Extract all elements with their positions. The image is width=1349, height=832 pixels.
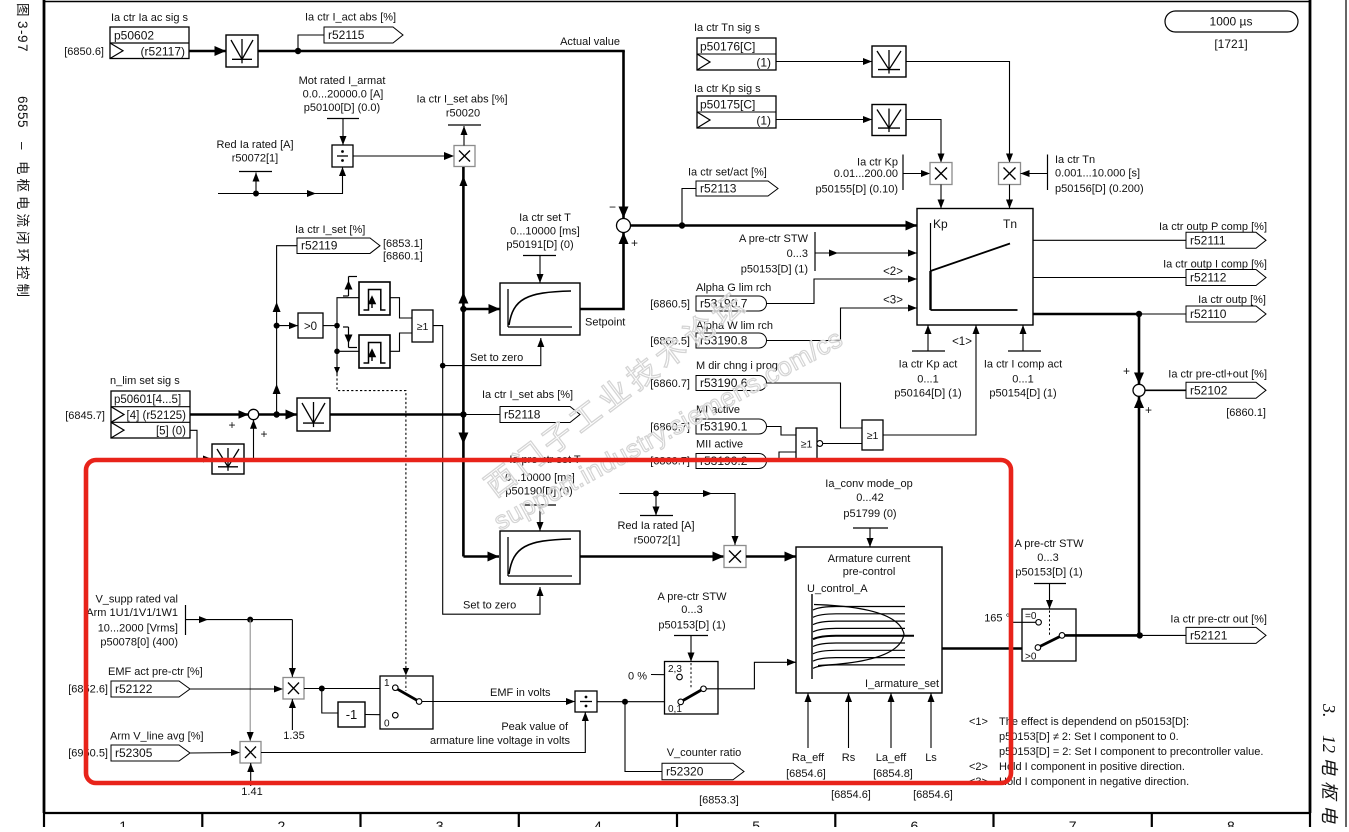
binector r53190.6: [696, 376, 767, 391]
svg-text:0...1: 0...1: [917, 374, 938, 386]
svg-text:p50602: p50602: [114, 29, 154, 43]
svg-text:0 %: 0 %: [628, 671, 647, 683]
svg-text:+: +: [260, 427, 267, 441]
cycle time oval 1000us: [1165, 11, 1298, 32]
label Setpoint: [585, 317, 625, 329]
svg-text:7: 7: [1069, 818, 1077, 827]
PT1 block setpoint smoothing: [500, 283, 580, 335]
svg-text:[6854.8]: [6854.8]: [873, 768, 913, 780]
svg-text:r50072[1]: r50072[1]: [232, 153, 278, 165]
note <1> line3: [999, 746, 1263, 758]
junction set-to-zero split: [440, 363, 446, 369]
smoothing block Ia actual: [226, 35, 258, 67]
output chevron r52110: [1186, 306, 1266, 322]
label Set to zero 2: [463, 600, 516, 612]
svg-text:0...3: 0...3: [1037, 552, 1058, 564]
input chevron r52305: [111, 745, 190, 761]
svg-text:[6845.7]: [6845.7]: [65, 410, 105, 422]
junction >0 branch: [274, 323, 280, 329]
svg-text:[6853.1]: [6853.1]: [383, 238, 423, 250]
label <1>: [952, 336, 972, 348]
wire nlim sum to limiter: [259, 410, 297, 420]
wire vertical I_set to PT1 input: [460, 304, 500, 314]
bar V_supp: [185, 605, 187, 635]
label n_lim set sig s: [110, 375, 180, 387]
wire r52118 tap: [463, 414, 500, 416]
right margin vertical caption: [1319, 703, 1339, 832]
divider block EMF ratio: [575, 691, 597, 712]
svg-text:[6854.6]: [6854.6]: [831, 789, 871, 801]
wire r53190.8 to PI: [767, 305, 918, 341]
input arrow Ls: [928, 693, 935, 748]
binector r53190.2: [696, 454, 767, 469]
svg-text:armature line voltage in volts: armature line voltage in volts: [430, 735, 571, 747]
label Mot rated I_armat: [299, 75, 386, 114]
junction V_supp: [247, 617, 253, 623]
svg-text:0...1: 0...1: [1012, 374, 1033, 386]
svg-text:≥1: ≥1: [417, 321, 429, 333]
footer column numbers 1-8: [119, 818, 1235, 832]
svg-text:r52102: r52102: [1190, 383, 1228, 397]
output chevron r52113: [696, 181, 778, 196]
label Actual value: [560, 36, 620, 48]
note <3>: [969, 776, 1189, 788]
junction trigger branch lower: [334, 349, 340, 355]
wire r52115 tap: [298, 35, 324, 51]
binector r53190.8: [696, 333, 767, 348]
bar A pre-ctr STW near PI: [814, 232, 816, 271]
output chevron r52119: [297, 238, 380, 254]
svg-text:Hold I component in positive d: Hold I component in positive direction.: [999, 761, 1185, 773]
falling edge symbol: [343, 327, 357, 348]
label Ia ctr outp: [1198, 294, 1266, 306]
label Ia ctr outp P comp: [1159, 221, 1267, 233]
NOR gate MI/MII: [796, 428, 823, 459]
svg-text:=0: =0: [1025, 611, 1037, 622]
wire r53190.7 to PI: [767, 276, 918, 304]
page frame right bar: [1309, 0, 1312, 813]
label Ia ctr Kp act: [894, 359, 961, 400]
svg-text:p50153[D] (1): p50153[D] (1): [741, 264, 808, 276]
wire mult to switch1: [304, 688, 393, 690]
label MI active: [696, 404, 740, 416]
pulse block rising: [359, 282, 390, 315]
svg-text:(r52117): (r52117): [141, 45, 185, 59]
label Ia ctr set T: [506, 212, 579, 251]
bar Ia ctr Tn: [1047, 155, 1049, 191]
svg-text:A pre-ctr STW: A pre-ctr STW: [657, 591, 727, 603]
wire PI out down to sum2: [1134, 314, 1144, 384]
note <1> line2: [999, 731, 1179, 743]
svg-text:0...42: 0...42: [856, 492, 884, 504]
wire set to zero PT1-1: [443, 338, 545, 366]
svg-text:Ia ctr I_set [%]: Ia ctr I_set [%]: [295, 224, 365, 236]
parameter tap p51799: [853, 528, 888, 547]
junction r52119 branch: [273, 411, 279, 417]
svg-text:Arm 1U1/1V1/1W1: Arm 1U1/1V1/1W1: [86, 607, 178, 619]
svg-text:Set to zero: Set to zero: [470, 352, 523, 364]
label Ia ctr pre-ctl+out: [1168, 369, 1267, 381]
label Red Ia rated (left): [216, 139, 293, 165]
multiplier box 1.41: [240, 742, 261, 764]
wire set to zero PT1-2: [443, 366, 544, 615]
parameter tap p50190: [524, 505, 556, 531]
svg-text:>0: >0: [1025, 652, 1037, 663]
label Ia ctr outp I comp: [1163, 259, 1267, 271]
svg-text:p50156[D] (0.200): p50156[D] (0.200): [1055, 183, 1144, 195]
svg-text:p50153[D] ≠ 2: Set I component: p50153[D] ≠ 2: Set I component to 0.: [999, 731, 1179, 743]
svg-text:p50164[D] (1): p50164[D] (1): [894, 388, 961, 400]
junction EMF: [319, 686, 325, 692]
label 165 deg: [984, 613, 1010, 625]
svg-text:<2>: <2>: [883, 266, 903, 278]
page right edge thin line: [1345, 0, 1347, 827]
wire r52113 tap: [682, 189, 696, 226]
svg-text:p50153[D] (1): p50153[D] (1): [658, 620, 725, 632]
pulse block falling: [359, 335, 390, 368]
input arrow Ra_eff: [805, 693, 812, 748]
wire Kp smoothing to multiplier: [906, 120, 945, 163]
output chevron r52102: [1186, 382, 1266, 398]
svg-text:4: 4: [594, 818, 602, 827]
smoothing block Kp: [872, 105, 906, 136]
svg-text:<1>: <1>: [952, 336, 972, 348]
connector box p50175: [697, 96, 776, 128]
svg-text:A pre-ctr STW: A pre-ctr STW: [1014, 538, 1084, 550]
connector box p50602/(r52117): [110, 27, 189, 59]
svg-text:≥1: ≥1: [867, 430, 879, 442]
label <3>: [883, 295, 903, 307]
multiplier box Kp: [930, 163, 952, 185]
label Ia ctr set/act: [688, 167, 767, 179]
tap Ia ctr Kp act: [912, 325, 945, 351]
output chevron r52115: [324, 27, 403, 43]
svg-text:0.001...10.000 [s]: 0.001...10.000 [s]: [1055, 168, 1140, 180]
reference [6860.7] b: [650, 422, 690, 434]
svg-text:Ia ctr pre-ctr out [%]: Ia ctr pre-ctr out [%]: [1170, 614, 1267, 626]
wire OR2 to PI bottom: [883, 325, 980, 435]
svg-text:1: 1: [119, 818, 127, 827]
reference [6860.5] a: [650, 299, 690, 311]
page frame top border: [44, 1, 1310, 3]
label Alpha G lim rch: [696, 282, 771, 294]
wire r53190.2 to NOR: [767, 452, 797, 461]
svg-text:p51799 (0): p51799 (0): [843, 508, 896, 520]
svg-text:EMF act pre-ctr [%]: EMF act pre-ctr [%]: [108, 666, 203, 678]
wire into >0: [277, 322, 298, 329]
label A pre-ctr STW switch3: [1014, 538, 1084, 579]
wire >0 output: [323, 325, 337, 327]
svg-text:Actual value: Actual value: [560, 36, 620, 48]
label Arm V_line avg: [110, 731, 204, 743]
svg-text:0.01...200.00: 0.01...200.00: [834, 168, 898, 180]
junction V_counter: [622, 699, 628, 705]
connector box p50176: [697, 38, 776, 70]
svg-text:+: +: [228, 418, 235, 432]
wire 0% stub: [651, 674, 677, 676]
wire dotted control stub: [334, 351, 340, 374]
wire EMF to -1: [322, 689, 338, 714]
reference [6853.1] [6860.1]: [383, 238, 423, 263]
page frame left bar: [43, 0, 46, 813]
svg-text:1.35: 1.35: [283, 730, 304, 742]
svg-text:r52119: r52119: [301, 239, 338, 253]
label Ia ctr I_act abs: [305, 12, 396, 24]
svg-text:Armature current: Armature current: [828, 553, 911, 565]
svg-text:r52320: r52320: [666, 765, 704, 779]
wire p50155 into Kp multiplier: [903, 170, 930, 177]
parameter tap p50100 into divider: [327, 119, 359, 146]
svg-text:3: 3: [436, 818, 444, 827]
svg-text:<2>: <2>: [969, 761, 988, 773]
svg-text:[1721]: [1721]: [1214, 37, 1247, 51]
parameter tap p50191: [523, 256, 556, 284]
box -1: [338, 702, 365, 727]
svg-text:U_control_A: U_control_A: [807, 583, 868, 595]
svg-text:<1>: <1>: [969, 716, 988, 728]
svg-text:Red Ia rated [A]: Red Ia rated [A]: [617, 520, 694, 532]
label Ia ctr I_set: [295, 224, 365, 236]
svg-text:0...10000 [ms]: 0...10000 [ms]: [510, 226, 580, 238]
svg-text:Ia_conv mode_op: Ia_conv mode_op: [825, 478, 912, 490]
wire PI out I comp: [1033, 277, 1186, 279]
wire V_supp feed: [186, 616, 293, 623]
reference [6860.5] b: [650, 336, 690, 348]
svg-text:+: +: [1123, 364, 1130, 378]
label plus sum2 bottom: [1145, 403, 1152, 417]
svg-text:+: +: [1145, 403, 1152, 417]
svg-text:r52122: r52122: [115, 682, 153, 696]
tap 1.41: [247, 763, 254, 786]
wire rated current feed: [218, 167, 346, 197]
label plus at summation1: [631, 236, 638, 250]
wire to r52121: [1140, 634, 1186, 636]
multiplier box pre-control: [724, 546, 746, 568]
output chevron r52111: [1186, 232, 1266, 248]
svg-text:Setpoint: Setpoint: [585, 317, 625, 329]
svg-text:r52111: r52111: [1190, 233, 1226, 247]
label Ia ctr Tn params: [1055, 154, 1144, 195]
wire switch2 out to pre-control: [706, 659, 796, 689]
input arrow Rs: [845, 693, 852, 748]
svg-text:8: 8: [1227, 818, 1235, 827]
svg-text:r52121: r52121: [1190, 628, 1228, 642]
input chevron r52122: [111, 681, 190, 697]
reference [6950.5]: [68, 748, 108, 760]
reference [6860.7] c: [650, 456, 690, 468]
wire pre-control block output: [942, 647, 1035, 650]
svg-text:Rs: Rs: [842, 752, 856, 764]
svg-text:pre-control: pre-control: [843, 566, 896, 578]
wire PT1-2 out to multiplier: [580, 552, 724, 562]
svg-text:(1): (1): [756, 56, 771, 70]
wire summation1 to PI: [631, 221, 918, 231]
svg-text:Ia ctr I_set abs [%]: Ia ctr I_set abs [%]: [416, 94, 507, 106]
multiplier box I_set abs: [454, 146, 475, 167]
svg-text:p50153[D] = 2: Set I component: p50153[D] = 2: Set I component to precon…: [999, 746, 1263, 758]
OR gate set-to-zero: [412, 310, 433, 342]
wire switch1 out: [422, 698, 575, 705]
svg-text:[6853.3]: [6853.3]: [699, 795, 739, 807]
svg-text:r52115: r52115: [328, 28, 365, 42]
reference [6853.3]: [699, 795, 739, 807]
wire divider2 out: [597, 701, 680, 703]
svg-text:Ia ctr I comp act: Ia ctr I comp act: [984, 359, 1062, 371]
svg-text:165 °: 165 °: [984, 613, 1010, 625]
wire rated feed 2: [619, 490, 738, 545]
output chevron r52320: [662, 763, 744, 780]
svg-text:1: 1: [384, 678, 390, 689]
switch pre-control out: [1022, 609, 1076, 663]
smoothing block I_set limiter: [297, 398, 330, 431]
svg-text:Ia ctr outp I comp [%]: Ia ctr outp I comp [%]: [1163, 259, 1267, 271]
tap Ia ctr I comp act: [1008, 325, 1041, 351]
label V_supp rated val: [86, 594, 178, 649]
label EMF act pre-ctr: [108, 666, 203, 678]
svg-text:Ia ctr outp [%]: Ia ctr outp [%]: [1198, 294, 1266, 306]
svg-text:[6854.6]: [6854.6]: [786, 768, 826, 780]
svg-text:10...2000 [Vrms]: 10...2000 [Vrms]: [98, 623, 178, 635]
svg-text:0...3: 0...3: [681, 604, 702, 616]
svg-text:Ia ctr Tn: Ia ctr Tn: [1055, 154, 1095, 166]
svg-text:p50191[D] (0): p50191[D] (0): [506, 239, 573, 251]
wire rising trigger to OR: [390, 298, 412, 318]
svg-text:Ia ctr Kp sig s: Ia ctr Kp sig s: [694, 83, 761, 95]
svg-text:Ia ctr Tn sig s: Ia ctr Tn sig s: [694, 22, 760, 34]
svg-text:V_counter ratio: V_counter ratio: [667, 747, 742, 759]
svg-text:p50176[C]: p50176[C]: [700, 40, 755, 54]
wire smoothing to nlim sum: [244, 420, 257, 459]
tap 1.35: [289, 699, 296, 730]
svg-text:[6860.1]: [6860.1]: [1226, 407, 1266, 419]
wire main actual value horizontal: [258, 50, 625, 53]
svg-text:≥1: ≥1: [801, 439, 813, 451]
wire OR out to set-to-zero: [433, 326, 443, 366]
PI controller block: [917, 209, 1033, 326]
label Ia pre-ctr set T: [505, 454, 581, 498]
label Ia ctr Kp params: [815, 157, 898, 196]
svg-text:p50154[D] (1): p50154[D] (1): [989, 388, 1056, 400]
binector r53190.1: [696, 419, 767, 434]
label minus at summation: [609, 200, 616, 214]
svg-text:(1): (1): [756, 114, 771, 128]
label Ia ctr Tn sig s: [694, 22, 760, 34]
svg-text:Ia ctr set T: Ia ctr set T: [519, 212, 571, 224]
svg-text:6: 6: [911, 818, 919, 827]
footer top line: [43, 812, 1311, 814]
wire to rising trigger: [337, 298, 359, 326]
label Ia ctr I_set abs r50020: [416, 94, 507, 120]
svg-text:0...3: 0...3: [787, 248, 808, 260]
wire PI out main: [1033, 313, 1186, 316]
input arrow La_eff: [888, 693, 895, 748]
svg-text:Ia ctr Kp act: Ia ctr Kp act: [899, 359, 958, 371]
comparator box >0: [298, 313, 323, 338]
svg-text:r52305: r52305: [115, 746, 153, 760]
svg-text:>0: >0: [304, 321, 317, 333]
footer column dividers: [44, 813, 1310, 827]
svg-text:Ia ctr I_set abs [%]: Ia ctr I_set abs [%]: [482, 389, 573, 401]
binector r53190.7: [696, 296, 767, 311]
label Ia ctr pre-ctr out: [1170, 614, 1267, 626]
svg-text:−: −: [609, 200, 616, 214]
label V_counter ratio: [667, 747, 742, 759]
svg-text:[5] (0): [5] (0): [156, 426, 186, 438]
svg-text:[6850.6]: [6850.6]: [64, 46, 104, 58]
label Peak value: [430, 721, 571, 747]
wire p50175 to smoothing: [776, 116, 872, 123]
wire divider to multiplier: [353, 152, 454, 160]
wire to falling trigger: [337, 326, 359, 352]
wire 1.41 mult to divider2: [261, 712, 589, 753]
wire main I_set vertical: [458, 167, 468, 557]
svg-text:Ra_eff: Ra_eff: [792, 752, 825, 764]
label A pre-ctr STW switch2: [657, 591, 727, 632]
svg-text:p50155[D] (0.10): p50155[D] (0.10): [815, 184, 898, 196]
summation circle n_lim: [248, 409, 258, 419]
display tap r50072 left: [239, 172, 272, 194]
junction I_set at main line: [460, 411, 466, 417]
svg-text:1.41: 1.41: [241, 786, 262, 798]
svg-text:0,1: 0,1: [668, 704, 682, 715]
bar Ia ctr Kp: [902, 155, 904, 191]
label plus sum2 top: [1123, 364, 1130, 378]
svg-text:V_supp rated val: V_supp rated val: [95, 594, 178, 606]
wire sum2 to r52102: [1145, 389, 1186, 391]
svg-text:Arm V_line avg [%]: Arm V_line avg [%]: [110, 731, 204, 743]
svg-text:n_lim set sig s: n_lim set sig s: [110, 375, 180, 387]
label Ia ctr I comp act: [984, 359, 1062, 400]
rising edge symbol: [343, 277, 357, 297]
label plus bottom nlim sum: [260, 427, 267, 441]
svg-text:Ia ctr pre-ctl+out [%]: Ia ctr pre-ctl+out [%]: [1168, 369, 1267, 381]
label plus left nlim sum: [228, 418, 235, 432]
label Ia_conv mode_op: [825, 478, 912, 520]
wire r52122 to mult: [190, 686, 283, 693]
parameter tap p50153 switch3: [1034, 584, 1066, 610]
label Ia ctr I_set abs r52118: [482, 389, 573, 401]
summation circle set/act: [617, 219, 631, 233]
display tap r50020: [448, 125, 481, 146]
label MII active: [696, 439, 743, 451]
divider block I_act normalize: [332, 145, 353, 167]
label Red Ia rated 2: [617, 520, 694, 547]
label 1.35: [283, 730, 304, 742]
reference [6854.6] Ra: [786, 768, 826, 780]
wire Kp multiplier to PI: [938, 185, 945, 209]
wire PT1 out to summation: [580, 233, 629, 310]
label 0 %: [628, 671, 647, 683]
wire precontrol up to sum2: [1134, 397, 1144, 636]
svg-text:Ia ctr outp P comp [%]: Ia ctr outp P comp [%]: [1159, 221, 1267, 233]
reference [6860.1] out: [1226, 407, 1266, 419]
reference [6854.6] Ls: [913, 789, 953, 801]
junction r52115 tap: [295, 48, 301, 54]
wire actual value down to sum: [619, 51, 629, 218]
svg-text:r52113: r52113: [700, 182, 737, 196]
label <2>: [883, 266, 903, 278]
reference [6854.6] Rs: [831, 789, 871, 801]
wire n_lim [5] to smoothing: [190, 430, 212, 462]
svg-text:p50100[D] (0.0): p50100[D] (0.0): [304, 102, 380, 114]
svg-text:p50078[0] (400): p50078[0] (400): [100, 637, 178, 649]
junction rated 2: [653, 491, 659, 497]
smoothing block Tn: [872, 46, 906, 77]
wire r53190.6 to OR2: [767, 383, 863, 428]
wire multiplier to pre-control block: [746, 552, 796, 562]
label EMF in volts: [490, 687, 551, 699]
multiplier box 1.35: [283, 678, 304, 700]
